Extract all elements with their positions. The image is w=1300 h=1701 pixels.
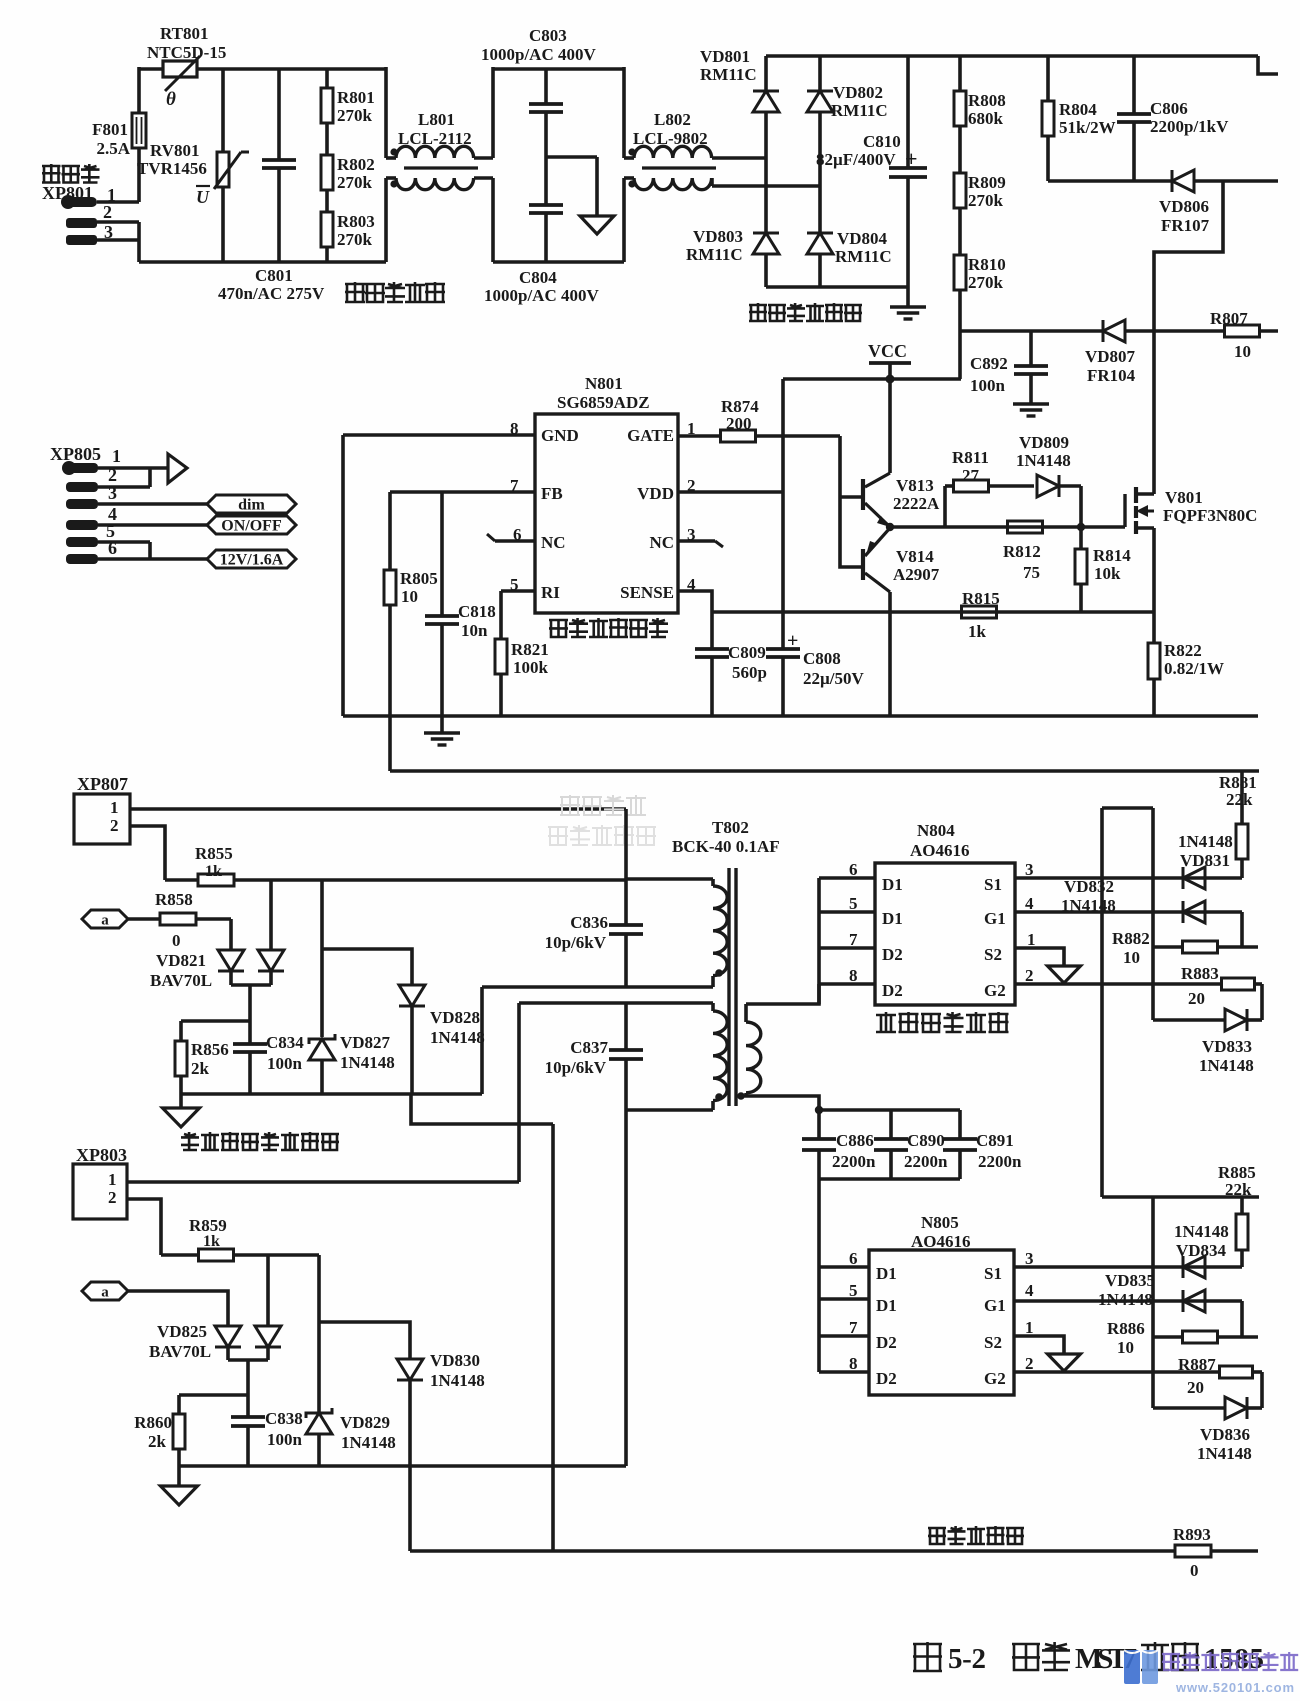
svg-text:2200n: 2200n <box>904 1152 948 1171</box>
svg-text:R802: R802 <box>337 155 375 174</box>
svg-text:100k: 100k <box>513 658 549 677</box>
diode VD834 <box>1183 1256 1205 1278</box>
svg-text:C838: C838 <box>265 1409 303 1428</box>
svg-text:V813: V813 <box>896 476 934 495</box>
svg-text:R811: R811 <box>952 448 989 467</box>
wire XP805 pin1 <box>98 466 168 470</box>
diode VD829 <box>317 1255 321 1412</box>
wire XP801 pin1 <box>97 200 139 204</box>
svg-text:N805: N805 <box>921 1213 959 1232</box>
svg-text:C890: C890 <box>907 1131 945 1150</box>
svg-text:R856: R856 <box>191 1040 229 1059</box>
svg-text:VD833: VD833 <box>1202 1037 1252 1056</box>
wire XP805 pin5 <box>98 540 150 544</box>
ground <box>440 716 444 733</box>
wire snubber bottom <box>1048 179 1172 183</box>
wire EMI left vertical <box>137 67 141 113</box>
op-amp U1 N801 SG6859ADZ box <box>535 414 678 613</box>
capacitor C808 <box>766 647 800 651</box>
svg-text:4: 4 <box>1025 1281 1034 1300</box>
svg-text:S1: S1 <box>984 875 1002 894</box>
svg-text:1N4148: 1N4148 <box>1174 1222 1229 1241</box>
svg-text:1N4148: 1N4148 <box>341 1433 396 1452</box>
svg-text:C891: C891 <box>976 1131 1014 1150</box>
capacitor C837 <box>624 1003 628 1050</box>
svg-text:270k: 270k <box>337 230 373 249</box>
svg-text:1N4148: 1N4148 <box>340 1053 395 1072</box>
wire G2 line <box>1015 982 1222 986</box>
fuse F801 <box>132 113 146 148</box>
resistor R803 <box>325 190 329 212</box>
node a <box>82 910 128 928</box>
svg-text:SG6859ADZ: SG6859ADZ <box>557 393 650 412</box>
wire XP807 pin2 <box>130 826 165 880</box>
svg-text:RT801: RT801 <box>160 24 209 43</box>
capacitor C838 <box>246 1395 250 1417</box>
svg-text:GATE: GATE <box>627 426 674 445</box>
svg-text:θ: θ <box>166 89 176 110</box>
svg-text:VD836: VD836 <box>1200 1425 1250 1444</box>
svg-text:L801: L801 <box>418 110 455 129</box>
resistor R810 <box>958 208 962 255</box>
connector XP801 label <box>42 164 61 183</box>
wire bridge bottom <box>766 285 908 289</box>
diode VD836 <box>1153 1406 1225 1410</box>
ground <box>1048 1354 1081 1371</box>
svg-text:R809: R809 <box>968 173 1006 192</box>
svg-text:C837: C837 <box>570 1038 608 1057</box>
svg-text:V801: V801 <box>1165 488 1203 507</box>
svg-text:U: U <box>196 187 210 207</box>
svg-text:C834: C834 <box>266 1033 304 1052</box>
svg-text:5: 5 <box>849 1281 858 1300</box>
svg-text:VD834: VD834 <box>1176 1241 1227 1260</box>
svg-text:2200n: 2200n <box>978 1152 1022 1171</box>
svg-text:C808: C808 <box>803 649 841 668</box>
svg-text:270k: 270k <box>337 173 373 192</box>
resistor R821 <box>499 591 503 639</box>
svg-text:22k: 22k <box>1225 1180 1252 1199</box>
svg-text:12V/1.6A: 12V/1.6A <box>220 552 284 569</box>
wire XP801 pin2 <box>97 220 139 224</box>
resistor R893 <box>1175 1545 1211 1557</box>
svg-text:NC: NC <box>541 533 566 552</box>
wire XP805 pin4 <box>98 523 207 527</box>
svg-text:2200n: 2200n <box>832 1152 876 1171</box>
detection label <box>181 1132 199 1150</box>
svg-text:C810: C810 <box>863 132 901 151</box>
wire tap <box>246 1360 250 1395</box>
svg-text:G2: G2 <box>984 981 1006 1000</box>
svg-text:4: 4 <box>1025 894 1034 913</box>
wire detection ground line <box>181 1092 482 1096</box>
svg-text:G2: G2 <box>984 1369 1006 1388</box>
ground <box>580 216 614 234</box>
svg-text:10: 10 <box>1117 1338 1134 1357</box>
svg-text:0: 0 <box>172 931 181 950</box>
wire cap block bottom <box>819 1177 960 1181</box>
wire feedback line <box>390 769 1259 773</box>
capacitor C801 <box>277 69 281 160</box>
svg-text:GND: GND <box>541 426 579 445</box>
ground <box>1013 402 1049 405</box>
svg-text:VD832: VD832 <box>1064 877 1114 896</box>
svg-text:10: 10 <box>401 587 418 606</box>
svg-text:1N4148: 1N4148 <box>1061 896 1116 915</box>
svg-text:XP807: XP807 <box>77 774 128 794</box>
wire a to diode <box>128 1291 228 1326</box>
resistor R855 <box>165 878 198 882</box>
svg-text:A2907: A2907 <box>893 565 940 584</box>
svg-text:www.520101.com: www.520101.com <box>1175 1680 1294 1695</box>
svg-text:1: 1 <box>1027 930 1036 949</box>
svg-text:2: 2 <box>110 816 119 835</box>
wire N804 drain ladder <box>817 878 821 1004</box>
wire XP803 pin2 <box>127 1199 161 1255</box>
wire secondary top staircase <box>746 984 819 1004</box>
wire cap block top <box>819 1108 960 1112</box>
svg-text:1000p/AC 400V: 1000p/AC 400V <box>481 45 596 64</box>
diode VD809 <box>1037 475 1059 497</box>
svg-text:680k: 680k <box>968 109 1004 128</box>
wire XP805 pin3 <box>98 502 207 506</box>
capacitor C890 <box>889 1110 893 1139</box>
svg-text:R822: R822 <box>1164 641 1202 660</box>
svg-text:VD803: VD803 <box>693 227 743 246</box>
svg-text:C836: C836 <box>570 913 608 932</box>
svg-text:270k: 270k <box>337 106 373 125</box>
svg-text:XP805: XP805 <box>50 444 101 464</box>
svg-text:C804: C804 <box>519 268 557 287</box>
svg-text:2.5A: 2.5A <box>96 139 130 158</box>
capacitor C818 <box>440 492 444 616</box>
wire detection tap <box>248 985 252 1021</box>
svg-text:8: 8 <box>849 1354 858 1373</box>
transformer T802 primary upper <box>626 877 713 881</box>
resistor R822 <box>1152 612 1156 643</box>
resistor R802 <box>325 123 329 155</box>
resistor R858 <box>128 917 160 921</box>
ground <box>161 1486 198 1505</box>
svg-text:2: 2 <box>1025 966 1034 985</box>
wire N805 drain ladder <box>817 1179 821 1372</box>
wire jog to bottom <box>411 1094 553 1124</box>
wire R883 to VD833 <box>1260 984 1264 1020</box>
svg-text:D1: D1 <box>876 1264 897 1283</box>
svg-text:75: 75 <box>1023 563 1040 582</box>
diode VD806 <box>1172 170 1194 192</box>
svg-text:10p/6kV: 10p/6kV <box>545 1058 607 1077</box>
svg-text:F801: F801 <box>92 120 128 139</box>
wire FB line <box>390 490 535 494</box>
wire XP803 pin1 riser <box>517 1003 521 1182</box>
node a <box>82 1282 128 1300</box>
svg-text:27: 27 <box>962 466 980 485</box>
svg-text:VD835: VD835 <box>1105 1271 1155 1290</box>
svg-text:R807: R807 <box>1210 309 1248 328</box>
wire EMI right vertical <box>384 67 388 158</box>
svg-text:2222A: 2222A <box>893 494 940 513</box>
wire N804 riser <box>1100 808 1104 1197</box>
wire C837 chain down <box>624 1110 628 1466</box>
resistor R814 <box>1079 527 1083 549</box>
svg-text:C818: C818 <box>458 602 496 621</box>
svg-text:R801: R801 <box>337 88 375 107</box>
svg-text:2k: 2k <box>191 1059 210 1078</box>
wire G1 line N805 <box>1014 1299 1242 1303</box>
wire S2 to ground <box>1015 948 1064 966</box>
wire pin5 <box>501 589 535 593</box>
svg-text:RM11C: RM11C <box>831 101 888 120</box>
wire bottom rail <box>343 714 1258 718</box>
svg-text:R882: R882 <box>1112 929 1150 948</box>
resistor R886 <box>1240 1301 1244 1337</box>
svg-text:G1: G1 <box>984 1296 1006 1315</box>
svg-text:R812: R812 <box>1003 542 1041 561</box>
wire C803 top <box>491 67 495 158</box>
wire S1 line <box>1015 876 1242 880</box>
svg-text:TVR1456: TVR1456 <box>137 159 207 178</box>
svg-text:D2: D2 <box>876 1333 897 1352</box>
wire sense line <box>712 610 1154 614</box>
svg-text:R860: R860 <box>134 1413 172 1432</box>
svg-text:FR107: FR107 <box>1161 216 1210 235</box>
svg-text:1000p/AC 400V: 1000p/AC 400V <box>484 286 599 305</box>
wire VCC rail <box>958 331 962 379</box>
resistor R874 <box>721 430 756 442</box>
wire XP807 pin1 drop <box>624 809 628 880</box>
svg-text:22µ/50V: 22µ/50V <box>803 669 865 688</box>
wire R807 line <box>960 329 1103 333</box>
svg-text:1N4148: 1N4148 <box>1178 832 1233 851</box>
node 12V/1.6A <box>207 550 296 568</box>
capacitor C892 <box>1029 331 1033 366</box>
svg-text:0.82/1W: 0.82/1W <box>1164 659 1224 678</box>
svg-text:RM11C: RM11C <box>700 65 757 84</box>
svg-text:RV801: RV801 <box>150 141 199 160</box>
svg-text:RI: RI <box>541 583 560 602</box>
wire GATE to bases <box>755 434 840 438</box>
svg-text:100n: 100n <box>267 1054 303 1073</box>
wire inverter bottom line <box>410 1549 1175 1553</box>
wire mid to ground <box>546 155 597 159</box>
wire pin6 stub <box>495 539 535 543</box>
svg-text:FB: FB <box>541 484 563 503</box>
svg-text:1N4148: 1N4148 <box>430 1371 485 1390</box>
wire pin8 to ground rail <box>343 433 535 437</box>
diode VD833 <box>1153 1018 1225 1022</box>
wire drain riser <box>1154 181 1223 494</box>
watermark site <box>1124 1650 1298 1695</box>
svg-text:VD809: VD809 <box>1019 433 1069 452</box>
svg-text:1N4148: 1N4148 <box>1199 1056 1254 1075</box>
wire V813 collector to VCC <box>888 379 892 473</box>
svg-text:VD804: VD804 <box>837 229 888 248</box>
diode VD807 <box>1103 320 1125 342</box>
svg-text:NTC5D-15: NTC5D-15 <box>147 43 226 62</box>
ground <box>1048 966 1081 983</box>
svg-text:AO4616: AO4616 <box>910 841 970 860</box>
resistor R860 <box>177 1395 181 1414</box>
svg-text:6: 6 <box>849 860 858 879</box>
svg-text:20: 20 <box>1187 1378 1204 1397</box>
capacitor C804 <box>529 203 563 207</box>
diode VD831 <box>1183 867 1205 889</box>
wire gate drive line <box>890 525 1081 529</box>
svg-text:BCK-40 0.1AF: BCK-40 0.1AF <box>672 837 780 856</box>
svg-text:1N4148: 1N4148 <box>430 1028 485 1047</box>
wire R882 rail <box>1151 808 1155 1020</box>
svg-text:VD830: VD830 <box>430 1351 480 1370</box>
svg-text:VD829: VD829 <box>340 1413 390 1432</box>
svg-text:10: 10 <box>1123 948 1140 967</box>
svg-text:RM11C: RM11C <box>835 247 892 266</box>
svg-text:RM11C: RM11C <box>686 245 743 264</box>
ground <box>890 305 926 308</box>
diode VD827 <box>320 880 324 1037</box>
svg-text:R815: R815 <box>962 589 1000 608</box>
svg-text:FQPF3N80C: FQPF3N80C <box>1163 506 1257 525</box>
svg-text:7: 7 <box>849 1318 858 1337</box>
svg-text:ON/OFF: ON/OFF <box>221 518 282 535</box>
wire pin4 SENSE <box>678 591 712 612</box>
svg-text:6: 6 <box>849 1249 858 1268</box>
wire FB feedback drop <box>388 716 392 771</box>
wire C804 bottom <box>491 178 495 262</box>
svg-text:1: 1 <box>110 798 119 817</box>
svg-text:D2: D2 <box>882 981 903 1000</box>
svg-text:3: 3 <box>1025 860 1034 879</box>
svg-text:82µF/400V: 82µF/400V <box>816 150 896 169</box>
svg-text:R893: R893 <box>1173 1525 1211 1544</box>
svg-text:100n: 100n <box>970 376 1006 395</box>
svg-text:V814: V814 <box>896 547 934 566</box>
svg-text:D1: D1 <box>882 875 903 894</box>
svg-text:R803: R803 <box>337 212 375 231</box>
resistor R887 <box>1220 1366 1253 1378</box>
svg-text:D2: D2 <box>882 945 903 964</box>
wire XP801 pin3 <box>97 238 139 242</box>
svg-text:1k: 1k <box>205 863 222 880</box>
wire primary upper bottom <box>482 985 713 989</box>
svg-text:VDD: VDD <box>637 484 674 503</box>
diode VD830 <box>319 1322 410 1359</box>
svg-text:NC: NC <box>649 533 674 552</box>
resistor R815 <box>962 606 997 618</box>
wire V814 collector down <box>888 592 892 716</box>
svg-text:N801: N801 <box>585 374 623 393</box>
resistor R881 <box>1240 771 1244 824</box>
svg-text:270k: 270k <box>968 273 1004 292</box>
diode VD835 <box>1183 1290 1205 1312</box>
node dim <box>207 495 296 513</box>
svg-text:R804: R804 <box>1059 100 1097 119</box>
svg-text:2: 2 <box>1025 1354 1034 1373</box>
svg-text:XP803: XP803 <box>76 1145 127 1165</box>
svg-text:a: a <box>101 1285 109 1301</box>
svg-text:270k: 270k <box>968 191 1004 210</box>
wire XP805 pin2 <box>98 485 150 489</box>
svg-text:100n: 100n <box>267 1430 303 1449</box>
svg-text:470n/AC 275V: 470n/AC 275V <box>218 284 325 303</box>
svg-text:FR104: FR104 <box>1087 366 1136 385</box>
resistor R807 <box>1225 325 1260 337</box>
wire rail N805 <box>1151 1197 1155 1408</box>
svg-text:T802: T802 <box>712 818 749 837</box>
capacitor C834 <box>248 1021 252 1044</box>
svg-text:20: 20 <box>1188 989 1205 1008</box>
svg-text:2: 2 <box>108 1188 117 1207</box>
svg-text:22k: 22k <box>1226 790 1253 809</box>
svg-text:BAV70L: BAV70L <box>149 1342 211 1361</box>
svg-text:dim: dim <box>238 497 265 514</box>
svg-text:VD821: VD821 <box>156 951 206 970</box>
capacitor C806 <box>1132 56 1136 114</box>
svg-text:1: 1 <box>1025 1318 1034 1337</box>
svg-text:VD825: VD825 <box>157 1322 207 1341</box>
svg-text:R810: R810 <box>968 255 1006 274</box>
svg-text:R886: R886 <box>1107 1319 1145 1338</box>
svg-text:1N4148: 1N4148 <box>1197 1444 1252 1463</box>
svg-text:R821: R821 <box>511 640 549 659</box>
svg-text:560p: 560p <box>732 663 767 682</box>
svg-text:R858: R858 <box>155 890 193 909</box>
svg-text:7: 7 <box>849 930 858 949</box>
svg-text:VD806: VD806 <box>1159 197 1209 216</box>
wire pin3 stub <box>678 539 715 543</box>
capacitor C886 <box>817 1110 821 1139</box>
svg-text:D1: D1 <box>882 909 903 928</box>
resistor R805 <box>388 492 392 570</box>
EMI block label <box>345 282 365 302</box>
svg-text:1N4148: 1N4148 <box>1098 1290 1153 1309</box>
wire S1 line N805 <box>1014 1265 1242 1269</box>
svg-text:5: 5 <box>849 894 858 913</box>
svg-text:R887: R887 <box>1178 1355 1216 1374</box>
svg-text:S2: S2 <box>984 1333 1002 1352</box>
wire S2 to ground N805 <box>1014 1336 1064 1354</box>
svg-text:200: 200 <box>726 414 752 433</box>
capacitor C891 <box>958 1110 962 1139</box>
svg-text:R805: R805 <box>400 569 438 588</box>
svg-text:C806: C806 <box>1150 99 1188 118</box>
diode VD832 <box>1183 901 1205 923</box>
capacitor C809 <box>710 612 714 649</box>
caption <box>913 1642 942 1671</box>
svg-text:C892: C892 <box>970 354 1008 373</box>
resistor R812 <box>1008 521 1043 533</box>
transformer T802 primary lower <box>519 1001 713 1005</box>
svg-text:R855: R855 <box>195 844 233 863</box>
op-amp U2 N804 AO4616 box <box>875 863 1015 1005</box>
watermark faint <box>560 795 580 815</box>
svg-text:S2: S2 <box>984 945 1002 964</box>
svg-text:2200p/1kV: 2200p/1kV <box>1150 117 1229 136</box>
resistor R856 <box>179 1021 183 1041</box>
svg-text:VD831: VD831 <box>1180 851 1230 870</box>
svg-text:C803: C803 <box>529 26 567 45</box>
svg-text:VD807: VD807 <box>1085 347 1136 366</box>
resistor R885 <box>1240 1197 1244 1214</box>
svg-text:R814: R814 <box>1093 546 1131 565</box>
svg-text:3: 3 <box>1025 1249 1034 1268</box>
svg-text:2k: 2k <box>148 1432 167 1451</box>
svg-text:1: 1 <box>112 446 121 466</box>
svg-text:L802: L802 <box>654 110 691 129</box>
svg-text:C886: C886 <box>836 1131 874 1150</box>
off-page arrow <box>168 454 187 483</box>
svg-text:N804: N804 <box>917 821 955 840</box>
